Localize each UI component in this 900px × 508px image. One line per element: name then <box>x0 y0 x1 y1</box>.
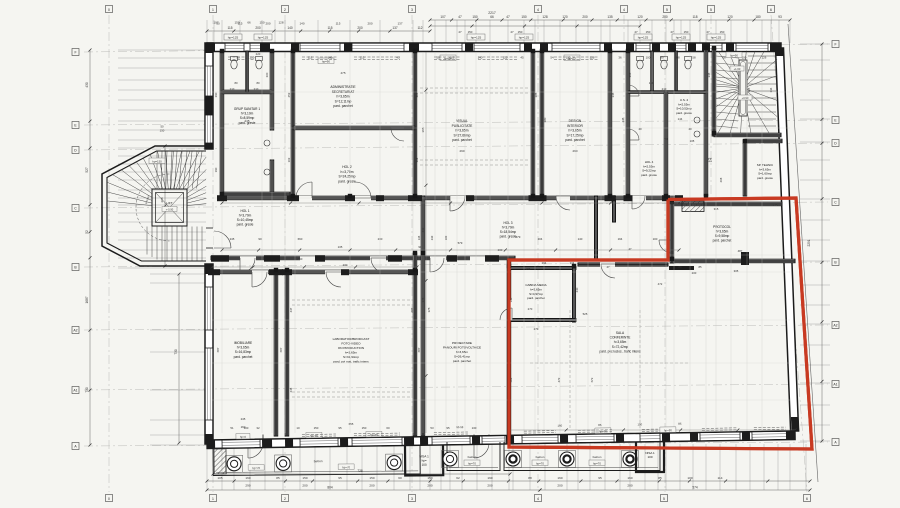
svg-text:hp=125: hp=125 <box>676 36 687 40</box>
svg-text:50: 50 <box>436 56 440 60</box>
svg-text:hp=90: hp=90 <box>322 59 330 63</box>
svg-text:60: 60 <box>386 426 390 430</box>
svg-text:66: 66 <box>247 21 251 25</box>
svg-text:1: 1 <box>212 8 214 12</box>
svg-text:56: 56 <box>722 56 726 60</box>
svg-text:85: 85 <box>658 476 662 480</box>
svg-text:+-0,90: +-0,90 <box>166 207 174 211</box>
svg-text:160: 160 <box>557 476 562 480</box>
svg-text:85: 85 <box>598 423 602 427</box>
svg-text:4: 4 <box>537 8 539 12</box>
svg-text:50: 50 <box>216 22 220 26</box>
svg-text:85: 85 <box>698 265 702 269</box>
svg-text:200: 200 <box>255 26 261 30</box>
svg-text:200: 200 <box>557 484 562 488</box>
svg-text:40: 40 <box>688 127 692 131</box>
svg-text:47: 47 <box>670 30 674 34</box>
svg-text:4: 4 <box>623 8 625 12</box>
svg-text:47: 47 <box>458 30 462 34</box>
svg-text:51: 51 <box>230 426 234 430</box>
svg-text:IMOBILIAREh=3,65mS=16,83mppard: IMOBILIAREh=3,65mS=16,83mppard. parchet <box>234 341 253 359</box>
svg-text:208: 208 <box>719 177 723 182</box>
svg-text:53: 53 <box>430 426 434 430</box>
svg-text:126: 126 <box>762 56 767 60</box>
svg-text:A2: A2 <box>73 329 77 333</box>
svg-text:140: 140 <box>299 22 304 26</box>
svg-text:6: 6 <box>770 8 772 12</box>
svg-text:126: 126 <box>590 56 595 60</box>
svg-text:3: 3 <box>411 497 413 501</box>
svg-text:150: 150 <box>369 476 374 480</box>
svg-text:200: 200 <box>302 484 307 488</box>
svg-text:472: 472 <box>658 282 663 286</box>
svg-text:190: 190 <box>214 167 218 172</box>
svg-text:2217: 2217 <box>488 11 496 15</box>
svg-text:100: 100 <box>653 237 658 241</box>
svg-text:47: 47 <box>606 265 610 269</box>
svg-text:150: 150 <box>468 30 473 34</box>
svg-text:1: 1 <box>212 497 214 501</box>
svg-text:120: 120 <box>637 15 643 19</box>
svg-text:160: 160 <box>627 476 632 480</box>
svg-text:380: 380 <box>543 117 547 122</box>
svg-text:105: 105 <box>217 476 222 480</box>
svg-text:66: 66 <box>490 15 494 19</box>
svg-text:LIFT: LIFT <box>166 201 172 205</box>
svg-text:115: 115 <box>336 22 341 26</box>
svg-text:hp=0: hp=0 <box>240 435 247 439</box>
svg-text:107: 107 <box>440 15 446 19</box>
svg-text:430: 430 <box>85 82 89 88</box>
svg-text:290: 290 <box>572 149 577 153</box>
svg-text:85: 85 <box>276 476 280 480</box>
svg-text:balcon: balcon <box>593 455 602 459</box>
svg-text:112: 112 <box>417 26 422 30</box>
svg-text:315: 315 <box>773 203 778 207</box>
svg-text:115: 115 <box>360 56 365 60</box>
svg-text:113: 113 <box>450 56 455 60</box>
svg-text:527: 527 <box>85 167 89 173</box>
svg-text:730: 730 <box>174 349 178 355</box>
svg-text:10: 10 <box>296 426 300 430</box>
svg-text:345: 345 <box>707 72 711 77</box>
svg-text:230: 230 <box>378 237 383 241</box>
svg-text:270: 270 <box>528 307 533 311</box>
svg-text:378: 378 <box>421 297 425 302</box>
svg-text:650: 650 <box>298 257 303 261</box>
svg-text:hp=90: hp=90 <box>664 428 672 432</box>
svg-text:135: 135 <box>338 245 343 249</box>
svg-text:balcon: balcon <box>536 455 545 459</box>
svg-text:194: 194 <box>618 237 623 241</box>
svg-text:0: 0 <box>108 497 110 501</box>
svg-text:115: 115 <box>503 56 508 60</box>
svg-text:210: 210 <box>230 87 235 91</box>
svg-text:175: 175 <box>709 157 713 162</box>
svg-text:315: 315 <box>714 207 719 211</box>
svg-text:2291: 2291 <box>807 239 811 246</box>
svg-text:120: 120 <box>727 15 733 19</box>
svg-text:A1: A1 <box>73 389 77 393</box>
svg-text:672: 672 <box>590 377 594 382</box>
svg-text:160: 160 <box>557 424 562 428</box>
svg-text:687: 687 <box>410 307 414 312</box>
svg-text:245: 245 <box>241 417 246 421</box>
svg-text:305: 305 <box>734 269 739 273</box>
svg-text:245: 245 <box>244 119 249 123</box>
svg-text:150: 150 <box>518 30 523 34</box>
svg-text:150: 150 <box>646 30 651 34</box>
svg-text:5: 5 <box>666 8 668 12</box>
svg-text:378: 378 <box>427 307 431 312</box>
svg-text:579: 579 <box>516 235 521 239</box>
svg-text:2: 2 <box>284 8 286 12</box>
svg-text:5: 5 <box>663 497 665 501</box>
svg-text:140: 140 <box>287 26 293 30</box>
svg-text:150: 150 <box>160 129 165 133</box>
svg-text:255: 255 <box>526 267 531 271</box>
svg-text:200: 200 <box>265 22 270 26</box>
svg-text:115: 115 <box>227 26 232 30</box>
svg-text:hp=70: hp=70 <box>536 461 544 465</box>
svg-text:0: 0 <box>108 8 110 12</box>
svg-text:135: 135 <box>417 235 421 240</box>
svg-text:80: 80 <box>234 81 238 85</box>
svg-text:114: 114 <box>718 476 723 480</box>
svg-text:204: 204 <box>538 237 543 241</box>
svg-text:140: 140 <box>478 56 483 60</box>
svg-text:730: 730 <box>85 387 89 393</box>
svg-text:290: 290 <box>459 149 464 153</box>
svg-text:150: 150 <box>427 476 432 480</box>
svg-text:100: 100 <box>742 56 747 60</box>
svg-text:47: 47 <box>634 30 638 34</box>
svg-text:2: 2 <box>284 497 286 501</box>
svg-text:55 53: 55 53 <box>456 425 464 429</box>
svg-text:5: 5 <box>710 8 712 12</box>
svg-text:89: 89 <box>660 56 664 60</box>
svg-text:472: 472 <box>557 377 561 382</box>
svg-text:200: 200 <box>367 22 372 26</box>
svg-text:hp=70: hp=70 <box>252 466 260 470</box>
svg-text:120: 120 <box>562 15 568 19</box>
svg-text:hp=90: hp=90 <box>730 53 738 57</box>
svg-text:113: 113 <box>649 81 654 85</box>
svg-text:90: 90 <box>236 56 240 60</box>
svg-text:210: 210 <box>662 87 667 91</box>
svg-text:98: 98 <box>676 56 680 60</box>
svg-text:88: 88 <box>528 476 532 480</box>
svg-text:115: 115 <box>238 22 243 26</box>
svg-text:140: 140 <box>328 56 333 60</box>
svg-text:95: 95 <box>598 476 602 480</box>
svg-text:100: 100 <box>646 56 651 60</box>
svg-text:200: 200 <box>582 15 588 19</box>
svg-text:253: 253 <box>287 92 291 97</box>
svg-text:150: 150 <box>314 426 319 430</box>
svg-text:137: 137 <box>392 26 398 30</box>
svg-text:52: 52 <box>85 230 89 234</box>
svg-text:A1: A1 <box>833 383 837 387</box>
svg-text:100: 100 <box>244 426 249 430</box>
svg-text:45: 45 <box>520 56 524 60</box>
svg-text:245: 245 <box>289 387 293 392</box>
svg-text:200: 200 <box>692 271 697 275</box>
svg-text:4: 4 <box>537 497 539 501</box>
svg-text:230: 230 <box>430 235 434 240</box>
svg-text:290: 290 <box>245 484 250 488</box>
svg-text:PROTOCOLh=3,65mS=9,58mppard. p: PROTOCOLh=3,65mS=9,58mppard. parchet <box>713 225 732 243</box>
svg-text:687: 687 <box>417 347 421 352</box>
svg-text:150: 150 <box>684 30 689 34</box>
svg-text:475: 475 <box>340 71 345 75</box>
svg-text:+3,90: +3,90 <box>742 96 749 100</box>
svg-text:655: 655 <box>349 422 354 426</box>
svg-text:95: 95 <box>338 426 342 430</box>
svg-text:A2: A2 <box>833 324 837 328</box>
svg-text:hp=125: hp=125 <box>711 36 722 40</box>
svg-text:150: 150 <box>362 426 367 430</box>
svg-text:100: 100 <box>637 422 642 426</box>
svg-text:150: 150 <box>259 21 264 25</box>
svg-text:728: 728 <box>357 469 363 473</box>
svg-text:360: 360 <box>265 72 269 77</box>
svg-text:hp=150: hp=150 <box>152 159 162 163</box>
svg-text:200: 200 <box>487 484 492 488</box>
svg-text:200: 200 <box>662 15 668 19</box>
svg-text:245: 245 <box>621 117 625 122</box>
svg-text:hp=70: hp=70 <box>593 461 601 465</box>
svg-text:58: 58 <box>692 56 696 60</box>
svg-text:447: 447 <box>289 307 293 312</box>
svg-text:687: 687 <box>279 347 283 352</box>
svg-text:hp=125: hp=125 <box>228 36 239 40</box>
svg-text:660: 660 <box>298 237 303 241</box>
svg-text:687: 687 <box>216 347 220 352</box>
svg-text:1687: 1687 <box>85 296 89 303</box>
svg-text:365: 365 <box>747 87 751 92</box>
svg-text:32: 32 <box>256 426 260 430</box>
svg-text:47: 47 <box>458 15 462 19</box>
svg-text:150: 150 <box>302 476 307 480</box>
svg-text:40: 40 <box>638 127 642 131</box>
svg-text:85: 85 <box>678 422 682 426</box>
svg-text:47: 47 <box>506 15 510 19</box>
svg-text:432: 432 <box>421 227 425 232</box>
svg-text:SP. TEHNICh=3,65mS=1,60mppard.: SP. TEHNICh=3,65mS=1,60mppard. gresie <box>757 163 774 180</box>
svg-text:hp=125: hp=125 <box>519 36 530 40</box>
svg-text:150: 150 <box>472 15 478 19</box>
svg-text:115: 115 <box>327 26 332 30</box>
svg-text:45: 45 <box>396 56 400 60</box>
svg-text:3: 3 <box>411 8 413 12</box>
svg-text:+1,63: +1,63 <box>734 67 741 71</box>
svg-text:47: 47 <box>706 30 710 34</box>
svg-text:150: 150 <box>521 15 527 19</box>
svg-text:230: 230 <box>575 287 579 292</box>
svg-text:245: 245 <box>230 237 235 241</box>
svg-text:80: 80 <box>678 265 682 269</box>
svg-text:balcon: balcon <box>314 459 323 463</box>
svg-text:346: 346 <box>769 87 773 92</box>
svg-text:385: 385 <box>415 92 419 97</box>
svg-text:hp=70: hp=70 <box>468 461 476 465</box>
svg-text:F: F <box>74 51 76 55</box>
svg-text:62: 62 <box>456 476 460 480</box>
svg-text:hp=125: hp=125 <box>258 36 269 40</box>
svg-text:200: 200 <box>627 484 632 488</box>
svg-text:345: 345 <box>611 92 615 97</box>
svg-text:hp=125: hp=125 <box>471 36 482 40</box>
svg-text:60: 60 <box>398 476 402 480</box>
svg-text:54: 54 <box>550 56 554 60</box>
svg-text:525: 525 <box>583 312 588 316</box>
svg-text:579: 579 <box>458 241 463 245</box>
svg-text:103: 103 <box>415 157 419 162</box>
svg-text:385: 385 <box>534 92 538 97</box>
svg-text:574: 574 <box>692 486 698 490</box>
svg-text:155: 155 <box>628 72 632 77</box>
svg-text:47: 47 <box>510 30 514 34</box>
svg-text:balcon: balcon <box>468 455 477 459</box>
svg-text:70: 70 <box>664 137 668 141</box>
svg-text:95: 95 <box>338 476 342 480</box>
svg-text:128: 128 <box>542 15 548 19</box>
svg-text:200: 200 <box>369 484 374 488</box>
svg-text:200: 200 <box>357 26 363 30</box>
svg-text:160: 160 <box>245 476 250 480</box>
svg-text:36: 36 <box>618 56 622 60</box>
svg-text:144: 144 <box>678 117 683 121</box>
svg-text:137: 137 <box>397 22 402 26</box>
svg-text:150: 150 <box>720 30 725 34</box>
svg-text:190: 190 <box>487 476 492 480</box>
svg-text:118: 118 <box>692 15 697 19</box>
svg-text:210: 210 <box>250 56 255 60</box>
svg-text:135: 135 <box>607 15 613 19</box>
svg-text:93: 93 <box>778 15 782 19</box>
svg-text:hp=125: hp=125 <box>638 36 649 40</box>
svg-text:hp=70: hp=70 <box>342 465 350 469</box>
svg-text:390: 390 <box>214 92 218 97</box>
svg-text:130: 130 <box>472 426 477 430</box>
svg-text:220: 220 <box>256 52 261 56</box>
svg-text:6: 6 <box>806 497 808 501</box>
svg-text:47: 47 <box>628 247 632 251</box>
svg-text:90: 90 <box>258 237 262 241</box>
svg-text:103: 103 <box>287 157 291 162</box>
svg-text:210: 210 <box>254 87 259 91</box>
svg-text:140: 140 <box>578 237 583 241</box>
svg-text:270: 270 <box>534 327 539 331</box>
svg-text:200: 200 <box>427 484 432 488</box>
svg-text:110: 110 <box>566 56 571 60</box>
svg-text:100: 100 <box>687 476 692 480</box>
svg-text:804: 804 <box>327 486 333 490</box>
svg-text:F: F <box>834 43 836 47</box>
svg-text:95: 95 <box>446 426 450 430</box>
svg-text:180: 180 <box>755 15 761 19</box>
svg-text:113: 113 <box>308 56 313 60</box>
svg-text:230: 230 <box>343 263 348 267</box>
svg-text:80: 80 <box>256 81 260 85</box>
svg-text:128: 128 <box>278 21 283 25</box>
svg-text:105: 105 <box>690 139 695 143</box>
